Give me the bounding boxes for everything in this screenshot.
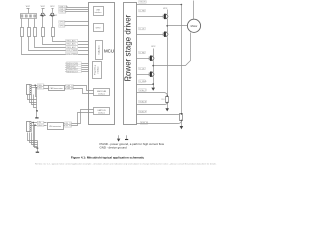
wire R4 to MCU xyxy=(43,37,89,45)
resistor R4 xyxy=(42,28,45,37)
node CANL drop xyxy=(36,87,37,88)
net label SO_A xyxy=(139,89,147,92)
J2 unused pins to GND xyxy=(28,90,32,94)
wire Q3 source to phase V xyxy=(153,62,155,72)
net label LED1 xyxy=(66,49,78,52)
wire LIN_TX to MCU xyxy=(72,110,94,124)
svg-text:SW2_ADC: SW2_ADC xyxy=(66,43,76,46)
wire LIN stub down xyxy=(34,123,38,147)
net label SO_A n xyxy=(139,100,147,103)
wires labels to LIN transceiver xyxy=(44,123,47,126)
wire sense1 top xyxy=(137,93,168,97)
net label USB_ID xyxy=(59,11,67,14)
wire J3 pin4 bend xyxy=(30,133,38,143)
svg-text:CAN_TX: CAN_TX xyxy=(66,84,74,87)
net label LIN_RX xyxy=(65,125,73,128)
wire connector pin2 to R2 xyxy=(28,19,30,28)
svg-text:S_GND: S_GND xyxy=(139,81,146,83)
wire sense2 bottom xyxy=(137,121,182,124)
MCU ADC sub-block xyxy=(96,41,103,60)
net label SW2 xyxy=(66,43,78,46)
wire rail down to shunt2 xyxy=(181,5,183,114)
svg-text:LED_PWM2: LED_PWM2 xyxy=(66,53,78,55)
transistor Q3 high-side V xyxy=(149,55,154,61)
svg-text:V_HS: V_HS xyxy=(139,52,145,54)
svg-text:VM_IN: VM_IN xyxy=(139,2,146,4)
connector J3 (LIN) xyxy=(27,122,32,132)
net label VBAT xyxy=(37,124,44,127)
driver GND pin symbol xyxy=(128,75,132,79)
wire J2 pin6 bend xyxy=(34,95,37,108)
net label USB_DP xyxy=(59,8,68,11)
legend GND symbol xyxy=(125,135,128,139)
wire TDI xyxy=(82,69,93,71)
svg-text:GPIO: GPIO xyxy=(96,28,101,30)
wire connector pin1 to R1 xyxy=(21,19,23,28)
svg-text:SOA_N: SOA_N xyxy=(139,100,146,103)
svg-text:CAN transceiver: CAN transceiver xyxy=(50,87,63,90)
MCU block U1 xyxy=(89,3,115,125)
svg-text:VCC: VCC xyxy=(151,46,156,48)
net label CAN_TX xyxy=(66,84,75,87)
svg-text:Induction: Induction xyxy=(98,45,101,55)
wire VBAT from J3 xyxy=(32,125,38,127)
svg-text:UART/LIN: UART/LIN xyxy=(97,109,106,112)
net label SW3 xyxy=(66,46,78,49)
shunt resistor RS2 xyxy=(180,113,183,121)
wire SWCLK xyxy=(82,65,93,67)
wire J3 pin3 bend xyxy=(28,133,38,141)
LED D1 xyxy=(40,13,46,27)
svg-text:LED_PWM1: LED_PWM1 xyxy=(66,50,78,52)
wire gate LS2 xyxy=(137,74,150,76)
wire R5 to MCU xyxy=(53,37,89,42)
svg-text:VCC: VCC xyxy=(41,6,46,8)
transistor Q1 high-side U xyxy=(163,13,168,19)
wire SWDIO xyxy=(82,63,93,65)
VCC for LED D2 xyxy=(50,6,55,12)
svg-text:NRST/BOOT: NRST/BOOT xyxy=(67,71,79,73)
svg-text:LIN transceiver: LIN transceiver xyxy=(49,125,61,128)
net label VM rail xyxy=(139,1,146,4)
svg-text:U_HS: U_HS xyxy=(139,10,145,12)
wire LIN from J3 xyxy=(32,122,38,124)
wire R1 to MCU xyxy=(22,37,89,55)
node LIN drop xyxy=(33,122,34,123)
wire CANH stub down xyxy=(36,86,37,97)
svg-text:Motor: Motor xyxy=(191,24,198,28)
svg-text:interface: interface xyxy=(98,93,105,96)
connector J2 (CAN) xyxy=(27,85,32,95)
PGND arrow at Q4 source xyxy=(151,88,155,91)
resistor R5 xyxy=(52,28,55,37)
LIN transceiver U4 xyxy=(48,123,64,130)
wire gate HS1 xyxy=(137,16,164,18)
MCU debug sub-block xyxy=(93,62,102,79)
svg-text:interface: interface xyxy=(98,112,105,115)
wire R3 to MCU xyxy=(35,37,89,48)
svg-text:VBAT: VBAT xyxy=(38,124,44,127)
net label SO_B n xyxy=(140,122,148,125)
node phase V xyxy=(152,65,154,67)
svg-text:V_LS: V_LS xyxy=(139,68,145,70)
svg-text:Power stage driver: Power stage driver xyxy=(124,14,133,81)
PGND arrow below shunt1 xyxy=(165,108,169,111)
net label V_HS xyxy=(139,51,145,54)
net label GPIO1 xyxy=(59,21,67,24)
net label SO_B p xyxy=(139,110,147,113)
CAN transceiver U3 xyxy=(49,86,65,91)
connector J1 xyxy=(21,14,37,19)
svg-text:SOB_P: SOB_P xyxy=(139,111,146,113)
shunt resistor RS1 xyxy=(161,95,168,103)
svg-text:LIN_RX: LIN_RX xyxy=(65,126,72,128)
svg-text:interface: interface xyxy=(97,66,100,73)
svg-text:VCC: VCC xyxy=(26,6,31,8)
svg-text:GPIO2: GPIO2 xyxy=(59,26,66,28)
svg-text:VCC: VCC xyxy=(163,8,168,10)
wire Q4 source down xyxy=(153,78,155,88)
svg-text:GPIO1: GPIO1 xyxy=(59,22,66,24)
wire Q2 source down to shunt1 xyxy=(167,38,169,97)
wire transceiver to labels xyxy=(65,86,66,89)
motor M1 xyxy=(187,1,200,33)
legend note text xyxy=(100,142,165,149)
wire USB_DM to MCU xyxy=(67,7,89,9)
node CANH drop xyxy=(35,85,36,86)
svg-text:U_LS: U_LS xyxy=(139,28,145,30)
wire CAN_TX to MCU xyxy=(74,86,94,91)
power supply VCC symbol xyxy=(26,6,31,13)
wire J2 pin4 bend xyxy=(30,95,37,103)
net label CAN_RX xyxy=(66,87,75,90)
node rail corner xyxy=(181,4,183,6)
wire J2 pin3 bend xyxy=(28,95,37,100)
wire shunt2 to ground xyxy=(181,121,183,127)
VCC high side 1 xyxy=(163,8,168,14)
svg-text:GND - device ground: GND - device ground xyxy=(100,146,128,150)
wire R2 to MCU xyxy=(29,37,89,51)
net label V_LS xyxy=(139,67,145,70)
wire CANL stub down xyxy=(36,88,38,111)
ground GND J3 xyxy=(36,141,39,153)
svg-text:interface: interface xyxy=(95,11,102,14)
net label CAN_L xyxy=(37,87,44,90)
wire shunt1 to ground xyxy=(167,103,169,109)
PGND arrow below shunt2 xyxy=(180,126,184,129)
LED D2 xyxy=(50,13,56,27)
wire J2 pin5 bend xyxy=(32,95,37,105)
MCU GPIO sub-block xyxy=(94,24,104,32)
wire GPIO1 to MCU xyxy=(65,21,89,23)
wire USB_DP to MCU xyxy=(66,9,89,11)
net label U_HS xyxy=(139,9,146,12)
net label U_LS xyxy=(139,27,145,30)
wire gate LS1 xyxy=(137,34,164,36)
transistor Q2 low-side U xyxy=(163,31,168,37)
net label LIN_TX xyxy=(65,122,73,125)
net label SGND xyxy=(139,80,147,83)
debug net labels and wires xyxy=(66,62,81,65)
wire SWO xyxy=(82,67,93,69)
svg-text:Prog/debug: Prog/debug xyxy=(93,65,96,75)
MCU UART-CAN sub-block xyxy=(94,89,110,96)
resistor R3 xyxy=(34,28,37,37)
wire transceiver to labels xyxy=(64,124,65,126)
power stage driver U2 xyxy=(124,3,137,125)
VCC high side 2 xyxy=(151,46,156,55)
ground GND J2 xyxy=(35,111,38,118)
wire sense1 bottom xyxy=(137,103,168,105)
svg-text:CAN_RX: CAN_RX xyxy=(66,87,74,90)
svg-text:UART/CAN: UART/CAN xyxy=(97,90,107,93)
wire VM rail xyxy=(137,4,182,6)
svg-text:Figure 4.1: Mitsubishi typical: Figure 4.1: Mitsubishi typical applicati… xyxy=(71,156,145,160)
wire NRST xyxy=(82,71,93,73)
svg-text:SW3_ADC: SW3_ADC xyxy=(66,46,76,49)
legend PGND symbol xyxy=(117,135,120,141)
wire connector pin3 to R3 xyxy=(34,19,36,28)
svg-text:CAN_L: CAN_L xyxy=(38,87,44,90)
wire sense2 top xyxy=(137,114,182,115)
MCU UART-LIN sub-block xyxy=(94,108,110,115)
VCC for LED D1 xyxy=(41,6,46,12)
wire VBAT stub down xyxy=(35,126,38,148)
resistor R2 xyxy=(28,28,31,37)
node GND J2 xyxy=(36,110,38,112)
svg-text:SW1_ADC: SW1_ADC xyxy=(66,39,76,42)
wire CAN_RX to MCU xyxy=(74,89,94,94)
wire phase V to motor xyxy=(154,33,191,66)
wire J3 pin5 bend xyxy=(32,133,38,145)
net label USB_DM xyxy=(59,5,68,8)
svg-text:Ref doc rev 1.2 - typical moto: Ref doc rev 1.2 - typical motor control … xyxy=(35,162,217,165)
net label LIN xyxy=(37,121,44,124)
wire Q1 source to phase U xyxy=(167,20,169,32)
svg-text:MCU: MCU xyxy=(104,49,114,54)
MCU USB interface sub-block xyxy=(94,7,104,16)
net label CAN_H xyxy=(37,84,45,87)
net label LED2 xyxy=(66,52,78,55)
wire gate HS2 xyxy=(137,58,150,60)
wire USB_ID to MCU xyxy=(66,11,89,13)
svg-text:RS1: RS1 xyxy=(161,99,164,101)
wire GPIO2 to MCU xyxy=(65,25,89,27)
net label GPIO2 xyxy=(59,25,67,28)
wires labels to CAN transceiver xyxy=(44,86,49,89)
svg-text:VCC: VCC xyxy=(50,6,55,8)
node GND J3 xyxy=(37,147,39,149)
node Q4 source xyxy=(152,83,154,85)
svg-text:SOA_P: SOA_P xyxy=(139,89,146,92)
wire LIN_RX to MCU xyxy=(72,113,94,126)
transistor Q4 low-side V xyxy=(149,71,154,77)
node VBAT drop xyxy=(34,124,35,125)
net label SW1 xyxy=(66,39,78,42)
wire CANL from J2 xyxy=(32,87,38,89)
wire CANH from J2 xyxy=(32,85,38,87)
wire driver to HB2 source xyxy=(137,84,154,86)
svg-text:USB_ID: USB_ID xyxy=(59,12,67,14)
resistor R1 xyxy=(21,28,24,37)
wire phase U to motor xyxy=(168,25,188,27)
node phase U xyxy=(166,25,168,27)
